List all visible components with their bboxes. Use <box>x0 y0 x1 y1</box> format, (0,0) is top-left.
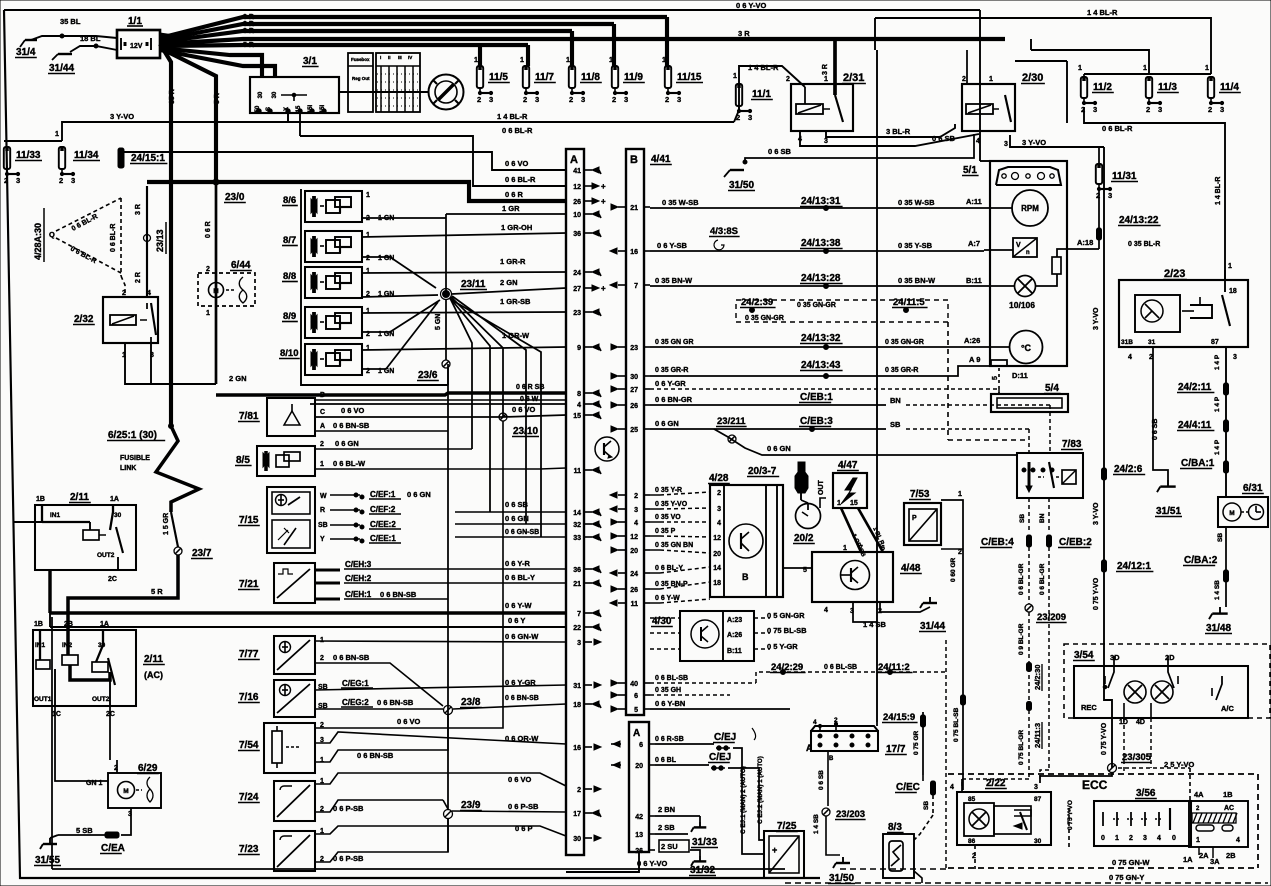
svg-text:8: 8 <box>577 391 581 398</box>
svg-text:2/32: 2/32 <box>74 314 94 325</box>
svg-text:2 GN: 2 GN <box>500 278 518 287</box>
svg-text:3: 3 <box>624 95 628 104</box>
svg-text:23/209: 23/209 <box>1037 612 1066 623</box>
svg-text:15: 15 <box>573 413 581 420</box>
svg-text:1: 1 <box>1143 65 1147 72</box>
svg-text:FUSIBLE: FUSIBLE <box>120 455 150 462</box>
svg-text:2: 2 <box>962 76 966 83</box>
wire 0.6 VO 7/54 up <box>315 421 503 728</box>
svg-text:20: 20 <box>713 551 721 558</box>
svg-text:4/41: 4/41 <box>651 154 671 165</box>
svg-text:4/28: 4/28 <box>709 473 729 484</box>
svg-text:0 6 VO: 0 6 VO <box>505 159 529 168</box>
wire 0.6 Y-W thick pin7 <box>50 611 566 614</box>
ground 31/50 top <box>730 169 744 171</box>
svg-text:0 6 Y-BN: 0 6 Y-BN <box>655 699 685 708</box>
fuse 11/31 <box>1098 147 1100 164</box>
fuse 11/34 <box>59 147 65 169</box>
svg-text:C/EB:3: C/EB:3 <box>800 416 833 427</box>
svg-text:2A: 2A <box>1199 851 1209 860</box>
wire 0.35 GR-R row <box>650 366 984 376</box>
node 23/209 <box>1025 604 1033 612</box>
svg-text:1: 1 <box>320 757 324 764</box>
svg-text:3 R: 3 R <box>243 21 254 28</box>
svg-text:3: 3 <box>71 176 75 185</box>
svg-text:2: 2 <box>569 95 573 104</box>
svg-text:0: 0 <box>1101 835 1105 842</box>
svg-text:3: 3 <box>717 506 721 513</box>
svg-text:1B: 1B <box>34 621 43 628</box>
svg-text:0 35 BN-W: 0 35 BN-W <box>655 276 693 285</box>
svg-text:31/33: 31/33 <box>692 837 717 848</box>
lamp module 3/54 <box>1064 644 1270 718</box>
svg-text:0 35 GR-R: 0 35 GR-R <box>655 367 688 374</box>
svg-text:18 BL: 18 BL <box>80 34 101 43</box>
svg-text:1A: 1A <box>100 621 109 628</box>
svg-text:24/11:5: 24/11:5 <box>893 297 925 308</box>
svg-text:3: 3 <box>1004 141 1008 148</box>
instrument cluster 5/1 <box>990 161 1067 366</box>
svg-text:0 35 Y-VO: 0 35 Y-VO <box>655 501 688 508</box>
svg-text:0 6 VO: 0 6 VO <box>397 717 421 726</box>
wire 0.6 BN-GR row C/EB:1 <box>650 404 886 406</box>
svg-text:24/13:32: 24/13:32 <box>801 333 841 344</box>
svg-text:2: 2 <box>206 266 210 273</box>
svg-text:SB: SB <box>1019 514 1026 523</box>
ground 31/44 <box>70 46 117 52</box>
svg-text:0 6 Y-VO: 0 6 Y-VO <box>736 1 766 10</box>
svg-text:10: 10 <box>573 212 581 219</box>
svg-text:9: 9 <box>577 345 581 352</box>
dashed bottom lines <box>840 868 946 870</box>
wire 6/31 down <box>1225 527 1227 607</box>
svg-text:30: 30 <box>114 512 122 519</box>
svg-text:31: 31 <box>573 683 581 690</box>
svg-text:23: 23 <box>573 310 581 317</box>
svg-text:C/EE:1: C/EE:1 <box>370 534 396 543</box>
svg-text:1 GR-W: 1 GR-W <box>502 331 530 340</box>
svg-text:0 6 GN-W: 0 6 GN-W <box>505 632 539 641</box>
svg-text:+: + <box>601 182 606 191</box>
injector 8/6 <box>305 191 362 222</box>
svg-text:7: 7 <box>577 611 581 618</box>
svg-text:0 6 BL-GR: 0 6 BL-GR <box>1018 563 1025 595</box>
svg-text:20: 20 <box>635 763 643 770</box>
svg-text:II: II <box>388 55 391 60</box>
svg-text:2: 2 <box>1146 105 1150 114</box>
svg-text:8/8: 8/8 <box>283 271 296 282</box>
svg-text:III: III <box>398 55 402 60</box>
svg-text:3: 3 <box>1158 105 1162 114</box>
svg-text:R: R <box>320 507 325 514</box>
svg-text:5/1: 5/1 <box>963 165 977 176</box>
wire 2/22 pin2 down <box>974 845 976 869</box>
svg-text:0 6 GN: 0 6 GN <box>655 419 679 428</box>
svg-text:0 75 Y-VO: 0 75 Y-VO <box>1067 800 1074 830</box>
svg-text:32: 32 <box>573 522 581 529</box>
svg-text:11/34: 11/34 <box>74 150 99 161</box>
svg-text:4: 4 <box>147 290 151 297</box>
svg-text:18: 18 <box>713 580 721 587</box>
svg-text:1: 1 <box>1196 837 1200 844</box>
svg-text:0 6 BL-R: 0 6 BL-R <box>1102 124 1133 133</box>
svg-text:7: 7 <box>634 283 638 290</box>
svg-text:24: 24 <box>573 270 581 277</box>
battery terminal blob <box>160 33 174 49</box>
svg-text:7/23: 7/23 <box>239 844 259 855</box>
svg-text:3/54: 3/54 <box>1074 650 1094 661</box>
svg-text:14: 14 <box>713 565 721 572</box>
svg-text:1 4 P: 1 4 P <box>1214 439 1221 455</box>
svg-text:4/47: 4/47 <box>838 460 858 471</box>
svg-text:1 4 P: 1 4 P <box>1214 396 1221 412</box>
svg-text:15: 15 <box>850 500 858 507</box>
svg-text:SB: SB <box>923 801 930 810</box>
svg-text:0 6 Y-W: 0 6 Y-W <box>505 601 532 610</box>
svg-text:1: 1 <box>366 192 370 199</box>
svg-text:1: 1 <box>843 545 847 552</box>
svg-text:3: 3 <box>1220 105 1224 114</box>
svg-text:0 6 GN-SB: 0 6 GN-SB <box>505 529 539 536</box>
svg-text:7/53: 7/53 <box>910 489 930 500</box>
fuse 11/1 <box>736 84 742 106</box>
svg-text:2D: 2D <box>1165 653 1175 662</box>
svg-text:31/44: 31/44 <box>920 621 945 632</box>
svg-text:3/56: 3/56 <box>1136 788 1156 799</box>
svg-text:0 6 BN-SB: 0 6 BN-SB <box>505 695 539 702</box>
wire 0.6 R vertical <box>215 182 218 384</box>
svg-text:24/2:11: 24/2:11 <box>1178 382 1212 393</box>
wire 1.4 BL-R top right <box>875 18 1211 74</box>
svg-text:0 35 GN-GR: 0 35 GN-GR <box>885 339 924 346</box>
fuse 11/15 <box>665 66 671 88</box>
svg-text:C EJ:2 (MAN) 1 (AUTO): C EJ:2 (MAN) 1 (AUTO) <box>757 756 764 824</box>
wire thick 5R left leg <box>48 570 51 613</box>
svg-text:8/9: 8/9 <box>283 311 296 322</box>
svg-text:36: 36 <box>573 567 581 574</box>
wire 0.35 W-SB row <box>650 207 984 209</box>
svg-text:4: 4 <box>976 138 980 145</box>
svg-text:1: 1 <box>1115 835 1119 842</box>
svg-text:2/31: 2/31 <box>843 72 864 84</box>
wire 3 Y-VO from 2/30 <box>1010 135 1104 147</box>
svg-text:1 4 BL-R: 1 4 BL-R <box>1087 8 1118 17</box>
svg-text:23/0: 23/0 <box>225 192 245 203</box>
wire 3/1 to key <box>339 91 428 93</box>
svg-text:1 4 P: 1 4 P <box>1214 354 1221 370</box>
wire 2/32 pins down <box>125 343 216 384</box>
svg-text:5 R: 5 R <box>151 587 163 596</box>
svg-text:OUT: OUT <box>818 480 825 496</box>
svg-text:B: B <box>320 392 325 399</box>
svg-text:6: 6 <box>639 742 643 749</box>
svg-text:7/24: 7/24 <box>239 792 259 803</box>
svg-text:A:18: A:18 <box>1077 238 1093 247</box>
sensor 7/23 <box>274 831 315 871</box>
svg-text:0 6 SB: 0 6 SB <box>505 500 529 509</box>
bus 23/0 <box>147 182 566 201</box>
svg-text:OUT1: OUT1 <box>34 696 52 703</box>
wire 5 R down <box>160 48 216 182</box>
fuse 11/8 <box>569 66 575 88</box>
svg-text:C: C <box>320 409 325 416</box>
wire 3/1 X to 1.4BL-R row <box>287 113 289 121</box>
svg-text:23/6: 23/6 <box>418 370 438 381</box>
svg-text:1: 1 <box>662 57 666 64</box>
svg-text:33: 33 <box>573 535 581 542</box>
svg-text:87: 87 <box>1211 339 1219 346</box>
wire 3 R bus 3 <box>160 31 572 42</box>
svg-text:5 GN: 5 GN <box>435 314 442 330</box>
svg-text:6/29: 6/29 <box>138 763 158 774</box>
injector 8/8 <box>305 267 362 298</box>
svg-text:0 35 Y-SB: 0 35 Y-SB <box>898 241 933 250</box>
svg-text:10/106: 10/106 <box>1009 300 1035 310</box>
wire 0.6 GN-SB pin33 <box>455 536 566 538</box>
wire 3R into 2/31 <box>833 39 837 95</box>
svg-text:0 75 GN-W: 0 75 GN-W <box>1112 858 1150 867</box>
dashed box 24/2:39 / 24/11:5 <box>736 300 948 322</box>
wires B to 4/28 <box>650 494 660 496</box>
svg-text:2 SB: 2 SB <box>658 823 675 832</box>
svg-text:4: 4 <box>813 719 817 726</box>
svg-text:1A: 1A <box>1183 855 1193 864</box>
wire to 2/22 pin3 <box>1040 772 1112 783</box>
svg-text:SB: SB <box>318 522 328 529</box>
svg-text:7/77: 7/77 <box>239 649 259 660</box>
connector strip A lower <box>629 722 649 852</box>
svg-text:3: 3 <box>577 640 581 647</box>
wire 0.35 GN-GR row <box>650 346 984 348</box>
svg-text:11/2: 11/2 <box>1093 82 1112 93</box>
connector strip B <box>626 149 644 715</box>
svg-text:0 6 Y-GR: 0 6 Y-GR <box>655 379 686 388</box>
sensor 7/16 <box>274 680 315 717</box>
wire 2 BN to 31/33 <box>655 815 700 817</box>
svg-text:1: 1 <box>206 310 210 317</box>
svg-text:31/50: 31/50 <box>729 180 754 191</box>
svg-text:3 Y-VO: 3 Y-VO <box>1093 502 1100 525</box>
svg-text:4: 4 <box>1236 837 1240 844</box>
svg-text:6/25:1 (30): 6/25:1 (30) <box>108 430 157 441</box>
svg-text:16: 16 <box>630 249 638 256</box>
svg-text:C/EH:3: C/EH:3 <box>345 560 372 569</box>
svg-text:0 35 Y-R: 0 35 Y-R <box>655 487 682 494</box>
svg-text:85: 85 <box>968 796 976 803</box>
wire feeds to ignition switch 3/1 <box>160 48 262 77</box>
key switch symbol <box>429 75 464 110</box>
svg-text:2/30: 2/30 <box>1022 72 1043 84</box>
svg-text:Reg Out: Reg Out <box>352 76 370 81</box>
svg-text:0 35 GH: 0 35 GH <box>655 687 681 694</box>
svg-text:0 6 VO: 0 6 VO <box>512 405 536 414</box>
wire 0.6 R-SB row <box>655 743 714 745</box>
svg-text:3 BL-R: 3 BL-R <box>886 127 911 136</box>
svg-text:A: A <box>633 728 640 739</box>
svg-text:20/2: 20/2 <box>794 533 814 544</box>
svg-text:12: 12 <box>573 184 581 191</box>
wires below C/EB <box>1028 547 1030 604</box>
svg-text:2: 2 <box>786 76 790 83</box>
svg-text:2: 2 <box>717 490 721 497</box>
svg-text:C/EH:2: C/EH:2 <box>345 574 372 583</box>
svg-text:4: 4 <box>1128 354 1132 361</box>
wire 3 R main to relays <box>160 39 1005 44</box>
svg-text:0 6 BL-Y: 0 6 BL-Y <box>655 565 683 572</box>
svg-text:2: 2 <box>477 95 481 104</box>
svg-text:C/EE:2: C/EE:2 <box>370 520 396 529</box>
svg-text:20/3-7: 20/3-7 <box>748 466 777 477</box>
wire 1 GR-W pin9 <box>362 347 566 350</box>
wires 3/54 down dashed <box>1123 718 1125 774</box>
temp gauge <box>1010 331 1043 364</box>
splice C/EB:2 <box>1047 535 1052 547</box>
svg-text:2: 2 <box>320 441 324 448</box>
svg-text:2/11: 2/11 <box>70 492 89 503</box>
svg-text:0 35 BL-R: 0 35 BL-R <box>1128 241 1160 248</box>
svg-text:1 GR-R: 1 GR-R <box>500 257 526 266</box>
wire 0.6 BL row <box>655 764 709 766</box>
svg-text:24/2:6: 24/2:6 <box>1114 464 1143 475</box>
svg-text:BN: BN <box>890 396 901 405</box>
wire 1 GR-SB pin23 <box>362 312 566 313</box>
svg-text:(AC): (AC) <box>144 670 163 680</box>
voltmeter symbol <box>1013 238 1037 257</box>
svg-text:A:7: A:7 <box>968 239 980 248</box>
svg-text:0 75 Y-VO: 0 75 Y-VO <box>1101 722 1108 755</box>
svg-text:20: 20 <box>630 548 638 555</box>
svg-text:2 BN: 2 BN <box>658 805 675 814</box>
wire 3/1 15 to 0.6BL-R row <box>299 113 301 136</box>
svg-text:4: 4 <box>950 784 954 791</box>
splice 24/4:11 <box>1224 420 1229 432</box>
svg-text:1 GR-OH: 1 GR-OH <box>501 223 532 232</box>
wire vertical 23/6 to 23/9 <box>447 368 449 810</box>
svg-text:42: 42 <box>635 814 643 821</box>
svg-text:B:11: B:11 <box>727 648 742 655</box>
svg-text:0 6 P: 0 6 P <box>515 824 533 833</box>
wire 4/48 pin2 to 31/44 <box>880 602 930 612</box>
svg-text:0 6 BL-R: 0 6 BL-R <box>502 126 533 135</box>
svg-text:V: V <box>1016 242 1021 249</box>
svg-text:23/10: 23/10 <box>513 426 538 437</box>
svg-text:BN: BN <box>1039 513 1046 523</box>
svg-text:0 6 BN-SB: 0 6 BN-SB <box>357 751 394 760</box>
node 23/9 <box>315 800 443 812</box>
wire 2/22 pin4 <box>961 779 963 792</box>
svg-text:A:11: A:11 <box>966 197 982 206</box>
svg-text:0 6 SB: 0 6 SB <box>818 770 825 790</box>
svg-text:4D: 4D <box>1136 719 1145 726</box>
svg-text:25: 25 <box>630 427 638 434</box>
splice C/BA:2 <box>1224 570 1229 582</box>
svg-text:1 4 BL-R: 1 4 BL-R <box>748 63 779 72</box>
wire 7/77 2 to 23/8 <box>315 663 443 706</box>
svg-text:0 75 BL-SB: 0 75 BL-SB <box>953 707 960 742</box>
svg-text:1: 1 <box>824 76 828 83</box>
svg-text:0 6 VO: 0 6 VO <box>341 406 365 415</box>
splice C/EB:4 <box>1027 535 1032 547</box>
svg-text:31/4: 31/4 <box>16 47 36 58</box>
svg-text:1 4 BL-R: 1 4 BL-R <box>1215 177 1222 205</box>
ignition coil 20/2 <box>796 504 821 529</box>
svg-text:0 6 VO: 0 6 VO <box>508 775 532 784</box>
svg-text:5 R: 5 R <box>214 93 221 104</box>
svg-text:21: 21 <box>630 205 638 212</box>
svg-text:0 6 GN: 0 6 GN <box>505 514 529 523</box>
transistor symbol mid <box>595 437 619 461</box>
svg-text:6: 6 <box>634 693 638 700</box>
svg-text:3 R: 3 R <box>135 204 142 215</box>
wire 0.6 GN row C/EB:3 <box>650 428 886 430</box>
svg-text:2: 2 <box>366 255 370 262</box>
node 23/305 <box>1108 764 1117 773</box>
svg-text:4: 4 <box>577 402 581 409</box>
svg-text:+: + <box>601 197 606 206</box>
svg-text:2: 2 <box>59 176 63 185</box>
wire 2/32 pin2 from dashed <box>121 276 125 297</box>
svg-text:0 6 Y: 0 6 Y <box>508 616 525 625</box>
fuse 11/5 <box>477 66 483 88</box>
svg-text:8/10: 8/10 <box>280 348 299 359</box>
svg-text:30: 30 <box>272 91 278 98</box>
svg-text:3 Y-VO: 3 Y-VO <box>110 112 134 121</box>
svg-text:°C: °C <box>1021 343 1032 353</box>
relay 2/11 AC <box>33 630 136 706</box>
svg-text:SB: SB <box>890 420 901 429</box>
svg-text:12: 12 <box>713 535 721 542</box>
svg-text:0 75 BL-GR: 0 75 BL-GR <box>1018 730 1025 765</box>
svg-text:3: 3 <box>16 176 20 185</box>
svg-text:2 GN: 2 GN <box>229 374 247 383</box>
wire 2/23 pin3 down <box>1225 347 1227 497</box>
svg-text:3 Y-VO: 3 Y-VO <box>1093 307 1100 330</box>
svg-text:7/16: 7/16 <box>239 692 259 703</box>
svg-text:0 6 BL-W: 0 6 BL-W <box>333 459 366 468</box>
svg-text:2: 2 <box>634 493 638 500</box>
svg-text:31: 31 <box>1148 339 1156 346</box>
svg-text:0 6 BL-R: 0 6 BL-R <box>110 224 117 252</box>
fuse table <box>348 53 373 112</box>
wire fuse tops link <box>1084 73 1211 75</box>
svg-text:23/13: 23/13 <box>155 229 165 252</box>
svg-text:24/12:1: 24/12:1 <box>1117 561 1151 572</box>
svg-text:1: 1 <box>566 57 570 64</box>
svg-text:0 6 R-SB: 0 6 R-SB <box>655 736 684 743</box>
svg-text:3: 3 <box>1108 191 1112 200</box>
svg-text:27: 27 <box>573 286 581 293</box>
wire 0.6 BL-Y pin21 <box>376 582 566 584</box>
svg-text:1 4 BL-R: 1 4 BL-R <box>497 112 528 121</box>
relay 2/30 <box>962 84 1015 131</box>
svg-text:12V: 12V <box>130 43 143 50</box>
fuse 11/7 <box>523 66 529 88</box>
tachometer RPM <box>1012 190 1048 226</box>
svg-text:3/1: 3/1 <box>303 56 317 67</box>
svg-text:3: 3 <box>581 95 585 104</box>
svg-text:21: 21 <box>573 581 581 588</box>
wire 0.6 BN-SB 7/54 <box>315 714 448 762</box>
svg-text:RPM: RPM <box>1021 204 1039 213</box>
svg-text:C/EH:1: C/EH:1 <box>345 590 372 599</box>
svg-text:1C: 1C <box>52 711 61 718</box>
splice C/BA:1 <box>1224 461 1229 473</box>
svg-text:0 35 GN-GR: 0 35 GN-GR <box>797 302 836 309</box>
svg-text:31/48: 31/48 <box>1206 623 1231 634</box>
svg-text:26: 26 <box>635 848 643 855</box>
wire 0.6 W pin4 <box>310 403 566 405</box>
svg-text:M: M <box>123 788 128 795</box>
